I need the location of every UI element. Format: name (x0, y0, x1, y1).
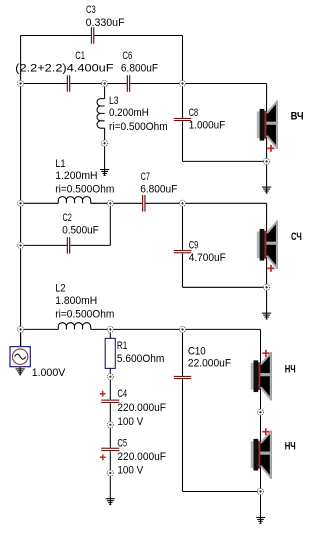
node H R1-C4 (107, 374, 113, 380)
node tweeter minus (264, 158, 270, 164)
svg-text:ri=0.500Ohm: ri=0.500Ohm (109, 121, 168, 133)
svg-text:6.800uF: 6.800uF (140, 183, 177, 195)
svg-text:0.500uF: 0.500uF (62, 225, 99, 237)
svg-text:L1: L1 (55, 158, 65, 170)
capacitor C6 6.800uF (127, 75, 131, 92)
wire right drop from top wire (182, 36, 184, 84)
wire R1 node to C4 (109, 377, 111, 400)
capacitor C7 6.800uF (142, 195, 146, 212)
wire C10 to woofer node (183, 491, 261, 493)
svg-text:C5: C5 (117, 438, 127, 450)
wire C10 bottom lead (182, 379, 184, 491)
inductor L2 1.800mH (58, 323, 90, 330)
wire mid branch (266, 203, 268, 287)
node woofer minus (257, 488, 263, 494)
wire node B to tweeter branch (183, 83, 267, 85)
svg-text:НЧ: НЧ (285, 363, 296, 375)
ground below woofers (256, 517, 265, 524)
wire tweeter branch (266, 84, 268, 162)
node F (107, 326, 113, 332)
svg-text:C10: C10 (188, 346, 206, 358)
svg-text:1.000uF: 1.000uF (189, 120, 226, 132)
wire C4 to node H (109, 403, 111, 425)
svg-text:1.200mH: 1.200mH (55, 170, 97, 182)
svg-text:C7: C7 (141, 171, 150, 183)
capacitor C8 1.000uF (174, 118, 191, 121)
wire C8 top lead (182, 84, 184, 118)
svg-text:0.200mH: 0.200mH (109, 107, 149, 119)
wire C9 top lead (182, 203, 184, 250)
speaker tweeter BЧ (257, 101, 278, 152)
wire mid node to ground (266, 287, 268, 318)
svg-text:ri=0.500Ohm: ri=0.500Ohm (55, 308, 114, 320)
wire node E to L2 (21, 328, 59, 330)
wire node F to node G (110, 328, 182, 330)
svg-text:C8: C8 (189, 107, 198, 119)
capacitor C1 4.400uF (67, 75, 71, 92)
wire node G to woofer branch (183, 328, 261, 330)
ground below source (16, 368, 25, 375)
wire C5 to node I (109, 451, 111, 473)
svg-text:(2.2+2.2)4.400uF: (2.2+2.2)4.400uF (15, 63, 114, 75)
wire L1 to node C (91, 202, 111, 204)
wire C8 bottom lead (182, 121, 184, 161)
svg-text:220.000uF: 220.000uF (117, 451, 166, 463)
node J C5-gnd (107, 470, 113, 476)
svg-text:4.700uF: 4.700uF (189, 252, 226, 264)
wire L3 bottom lead (104, 128, 106, 143)
resistor R1 5.600Ohm (105, 338, 115, 368)
node C (107, 200, 113, 206)
wire R1 bottom lead (109, 368, 111, 376)
speaker mid СЧ (257, 221, 278, 272)
AC source V1 1.000V (10, 347, 30, 367)
wire C6 to node B (130, 83, 182, 85)
capacitor C4 220.000uF polarity plus (100, 391, 106, 397)
node E source (18, 326, 24, 332)
svg-text:5.600Ohm: 5.600Ohm (117, 353, 164, 365)
node C2 left (18, 242, 24, 248)
svg-text:0.330uF: 0.330uF (86, 17, 125, 29)
ground below C5 (106, 498, 115, 505)
wire woofer node to ground (260, 492, 262, 523)
node A (18, 80, 24, 86)
capacitor C5 220.000uF polarity plus (100, 454, 106, 460)
wire C2 right side down (109, 203, 111, 245)
wire node I to ground (109, 473, 111, 504)
wire tweeter node to ground (266, 161, 268, 192)
node G (179, 326, 185, 332)
svg-text:C4: C4 (117, 388, 127, 400)
capacitor C2 0.500uF (67, 237, 71, 254)
wire left rail (20, 36, 22, 347)
speaker woofer НЧ upper (251, 350, 272, 401)
wire C2 left lead (21, 244, 67, 246)
svg-text:22.000uF: 22.000uF (188, 357, 231, 369)
svg-text:C6: C6 (122, 50, 132, 62)
svg-text:C2: C2 (63, 212, 72, 224)
node L3 top (102, 80, 108, 86)
wire L3 node to ground (104, 143, 106, 175)
node A2 (18, 200, 24, 206)
capacitor C3 0.330uF (91, 27, 95, 44)
capacitor C5 220.000uF (101, 448, 119, 451)
svg-text:R1: R1 (117, 340, 127, 352)
wire node D to mid branch (183, 202, 267, 204)
wire C10 top lead (182, 329, 184, 376)
svg-text:L2: L2 (55, 283, 65, 295)
wire node A to C1 (21, 83, 67, 85)
wire L3 node to C6 (105, 83, 127, 85)
wire source to ground (19, 367, 21, 375)
node D (179, 200, 185, 206)
svg-text:C9: C9 (189, 240, 199, 252)
wire L2 to node F (91, 328, 111, 330)
node between woofers (257, 409, 263, 415)
inductor L1 1.200mH (58, 197, 90, 204)
wire C2 right lead (70, 244, 110, 246)
ground below mid speaker (262, 313, 271, 320)
svg-text:220.000uF: 220.000uF (117, 402, 166, 414)
wire C9 to mid node (183, 286, 267, 288)
node L3 bottom (102, 140, 108, 146)
svg-text:C3: C3 (86, 4, 96, 16)
wire L3 top lead (104, 84, 106, 99)
svg-text:НЧ: НЧ (285, 441, 296, 453)
capacitor C10 22.000uF (174, 376, 191, 379)
wire C1 to L3 node (70, 83, 104, 85)
svg-text:ri=0.500Ohm: ri=0.500Ohm (55, 183, 114, 195)
wire top left of C3 (21, 35, 91, 37)
wire top right of C3 (94, 35, 182, 37)
svg-text:100 V: 100 V (117, 416, 143, 428)
svg-text:СЧ: СЧ (291, 231, 302, 243)
svg-text:6.800uF: 6.800uF (121, 63, 158, 75)
ground below L3 (100, 169, 109, 176)
svg-text:L3: L3 (109, 95, 119, 107)
svg-text:1.800mH: 1.800mH (55, 295, 97, 307)
node I C4-C5 (107, 422, 113, 428)
capacitor C4 220.000uF (101, 400, 119, 403)
wire node C to C7 (110, 202, 142, 204)
wire C7 to node D (146, 202, 183, 204)
svg-text:C1: C1 (75, 50, 85, 62)
svg-text:100 V: 100 V (117, 464, 143, 476)
node mid minus (264, 284, 270, 290)
wire node H to C5 (109, 425, 111, 448)
inductor L3 0.200mH (97, 99, 105, 129)
svg-text:ВЧ: ВЧ (291, 111, 304, 123)
speaker woofer НЧ lower (251, 428, 272, 479)
wire R1 top lead (109, 329, 111, 338)
node B (179, 80, 185, 86)
wire C8 to tweeter node (183, 160, 267, 162)
ground below tweeter (262, 187, 271, 194)
wire woofer branch (260, 329, 262, 491)
wire source lead (20, 329, 22, 346)
wire node A2 to L1 (21, 202, 59, 204)
svg-text:1.000V: 1.000V (32, 367, 66, 379)
wire C9 bottom lead (182, 253, 184, 287)
capacitor C9 4.700uF (174, 250, 191, 253)
